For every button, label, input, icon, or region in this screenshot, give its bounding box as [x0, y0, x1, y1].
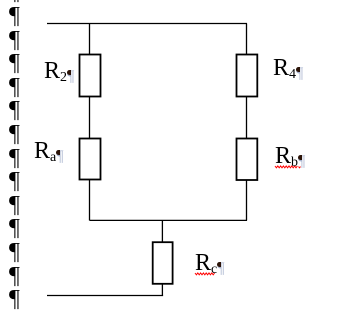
pilcrow (partial, top edge)	[9, 0, 29, 4]
wire: R4 to Rb	[246, 97, 248, 140]
resistor R4 (box)	[237, 55, 258, 97]
pilcrow 2	[9, 28, 29, 52]
label R2	[44, 59, 74, 85]
resistor Rb (box)	[237, 139, 258, 181]
pilcrow 7	[9, 146, 29, 170]
spellcheck squiggle under Rb (tail stub)	[299, 167, 301, 168]
pilcrow 11	[9, 240, 29, 264]
spellcheck squiggle under Rb	[275, 166, 297, 168]
wire: Rc down stub	[161, 284, 163, 296]
pilcrow 5	[9, 98, 29, 122]
wire: middle rail to Rc	[161, 220, 163, 243]
label R4	[273, 56, 303, 82]
label Rc	[195, 251, 224, 277]
label Rb	[275, 144, 305, 170]
pilcrow 3	[9, 51, 29, 75]
spellcheck squiggle under Rc	[195, 273, 215, 275]
wire: right branch top (node to R4)	[246, 24, 248, 56]
pilcrow 8	[9, 169, 29, 193]
wire: top rail	[47, 23, 247, 25]
resistor Rc (box)	[153, 242, 173, 284]
pilcrow 13	[9, 287, 29, 311]
wire: Rb to bottom rail	[246, 180, 248, 220]
label Ra	[34, 139, 63, 165]
wire: bottom return rail	[47, 295, 163, 297]
pilcrow 12	[9, 264, 29, 288]
resistor R2 (box)	[80, 55, 101, 97]
pilcrow 4	[9, 75, 29, 99]
pilcrow 6	[9, 122, 29, 146]
wire: left branch top (node to R2)	[89, 24, 91, 56]
wire: middle rail	[90, 219, 248, 221]
pilcrow 9	[9, 193, 29, 217]
wire: R2 to Ra	[89, 97, 91, 139]
wire: Ra to bottom rail	[89, 180, 91, 221]
pilcrow 1	[9, 4, 29, 28]
pilcrow 10	[9, 216, 29, 240]
resistor Ra (box)	[80, 139, 101, 180]
